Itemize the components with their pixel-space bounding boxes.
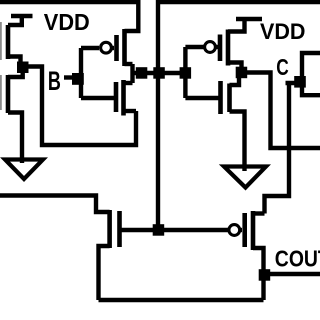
wire bottom gate row [120,228,229,232]
wire dot4 right and down, exiting right edge [247,73,320,149]
node dot 2 [153,67,165,79]
gate stub M2 (cut at image edge) [0,75,2,110]
svg-text:VDD: VDD [260,19,306,44]
VDD T-bar 2 [236,17,262,21]
node dot on bottom gate row [153,224,165,236]
transistor M8 (bottom PMOS) [245,211,265,300]
right-edge transistor box (cut) [302,53,320,95]
svg-text:VDD: VDD [44,9,90,35]
node dot 3 [180,67,192,79]
wire top rail 2 / net line down to bottom gate node [158,2,320,230]
transistor M1 (left upper, source to VDD bar) [8,16,33,62]
wire B to gate node [64,75,78,79]
node dot 6 (COUT tap) [259,269,271,281]
wire C node down to M8 source [286,81,303,85]
PMOS M8 bubble [229,225,240,236]
ground symbol 1 [5,160,43,180]
transistor M6 (NMOS inverter2, source to ground) [185,78,244,171]
node dot 5 [294,76,306,88]
transistor M3 (PMOS inverter1) [117,29,133,66]
node dot left stack output [17,62,29,74]
wire bottom source rail [99,298,264,302]
node dot 1 [136,67,148,79]
ground symbol 2 [224,167,266,188]
gate stub M1 (cut at image edge) [0,22,2,60]
PMOS M3 gate wire + bubble [81,46,99,50]
inverter2 gate feed line [183,47,187,98]
transistor M7 (bottom NMOS, gate on right) [0,196,120,301]
wire COUT output [264,272,320,276]
wire C node down to M8 source [265,83,290,214]
transistor M4 (NMOS inverter1) [81,80,136,116]
wire joining M3 drain / M4 drain (bracket) [130,64,134,83]
svg-text:B: B [48,66,61,96]
wire top rail 1 feeding PMOS M3 source [0,2,138,31]
PMOS M5 gate wire + bubble [185,45,204,49]
svg-text:COUT: COUT [275,246,320,272]
svg-text:C: C [276,54,289,80]
node dot B [72,73,84,85]
inverter1 gate feed line [79,48,83,98]
node dot 4 (inverter2 output) [236,67,248,79]
wire node row connecting dots 1-2-3 [133,71,187,75]
transistor M2 (left lower, source to ground) [8,72,23,163]
transistor M5 (PMOS inverter2, source to VDD bar) [220,19,245,67]
wire left-output loop to M4 source [28,67,136,146]
